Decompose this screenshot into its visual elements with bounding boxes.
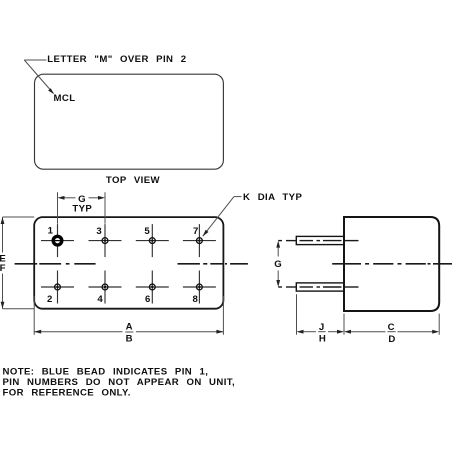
svg-text:1: 1 xyxy=(48,226,54,237)
svg-text:4: 4 xyxy=(97,294,103,305)
svg-text:H: H xyxy=(319,334,326,345)
svg-text:J: J xyxy=(319,322,325,333)
svg-text:MCL: MCL xyxy=(54,93,76,104)
svg-text:B: B xyxy=(126,334,133,345)
svg-text:TYP: TYP xyxy=(72,203,92,214)
svg-text:K DIA TYP: K DIA TYP xyxy=(243,192,302,203)
svg-text:TOP VIEW: TOP VIEW xyxy=(106,175,161,186)
svg-text:FOR REFERENCE ONLY.: FOR REFERENCE ONLY. xyxy=(3,387,131,398)
svg-text:F: F xyxy=(0,263,6,274)
svg-text:G: G xyxy=(274,259,282,270)
svg-text:6: 6 xyxy=(145,294,151,305)
svg-text:2: 2 xyxy=(47,294,53,305)
svg-text:LETTER "M" OVER PIN 2: LETTER "M" OVER PIN 2 xyxy=(47,54,186,65)
svg-text:D: D xyxy=(388,334,395,345)
svg-text:PIN NUMBERS DO NOT APPEAR ON U: PIN NUMBERS DO NOT APPEAR ON UNIT, xyxy=(3,377,236,388)
svg-text:A: A xyxy=(126,322,133,333)
svg-text:3: 3 xyxy=(96,226,102,237)
svg-text:NOTE: BLUE BEAD INDICATES PIN: NOTE: BLUE BEAD INDICATES PIN 1, xyxy=(3,366,209,377)
svg-text:5: 5 xyxy=(144,226,150,237)
svg-text:8: 8 xyxy=(192,294,198,305)
svg-text:C: C xyxy=(388,322,395,333)
svg-text:7: 7 xyxy=(193,226,199,237)
